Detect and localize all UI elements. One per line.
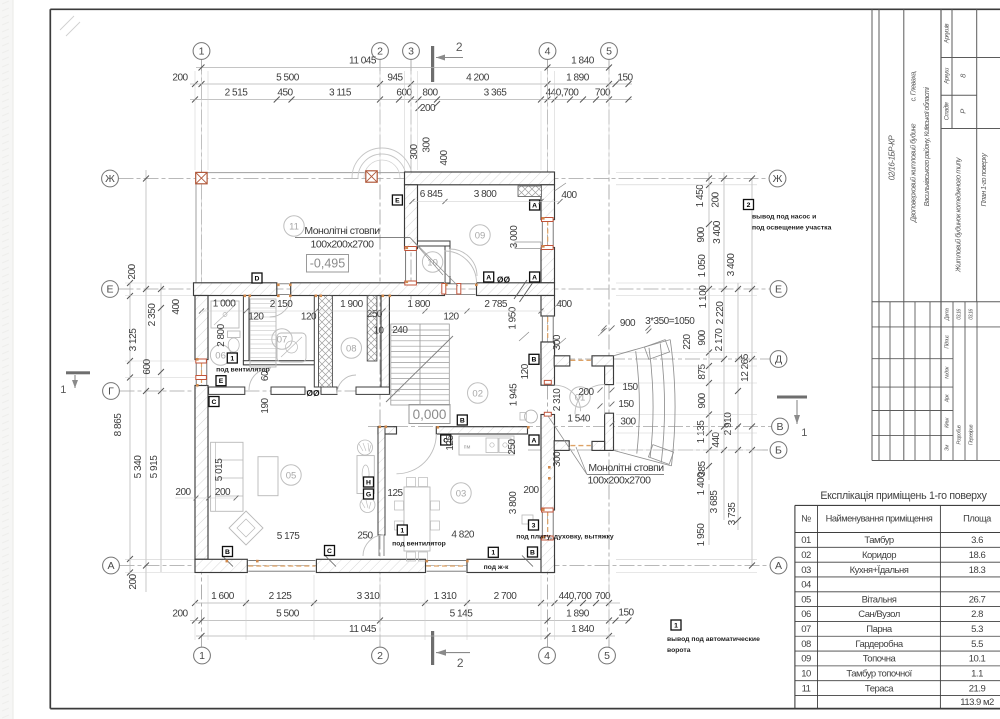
- svg-text:1 310: 1 310: [434, 591, 458, 602]
- svg-text:700: 700: [595, 591, 611, 602]
- svg-text:2: 2: [377, 46, 383, 58]
- svg-text:5 500: 5 500: [276, 609, 300, 620]
- svg-text:с. Глеваха,: с. Глеваха,: [909, 70, 918, 101]
- svg-text:3.6: 3.6: [971, 535, 983, 546]
- svg-text:08: 08: [346, 343, 357, 354]
- svg-text:240: 240: [392, 325, 408, 336]
- svg-text:1 945: 1 945: [509, 383, 520, 406]
- svg-text:-0,495: -0,495: [310, 257, 345, 271]
- svg-text:1 840: 1 840: [571, 56, 595, 67]
- svg-text:10: 10: [373, 325, 384, 336]
- svg-text:300: 300: [620, 417, 636, 428]
- svg-text:E: E: [395, 197, 400, 204]
- svg-text:03: 03: [456, 488, 467, 499]
- svg-text:5: 5: [604, 650, 610, 662]
- svg-text:B: B: [225, 549, 230, 556]
- svg-text:400: 400: [561, 190, 577, 201]
- svg-text:Стадія: Стадія: [945, 101, 951, 120]
- svg-text:09: 09: [801, 654, 811, 665]
- svg-text:1: 1: [491, 550, 495, 557]
- svg-text:3 365: 3 365: [484, 88, 508, 99]
- svg-text:200: 200: [172, 609, 188, 620]
- svg-text:200: 200: [175, 487, 191, 498]
- svg-text:5 500: 5 500: [276, 73, 300, 84]
- svg-text:6 845: 6 845: [420, 189, 443, 200]
- svg-text:Найменування приміщення: Найменування приміщення: [826, 514, 933, 524]
- svg-text:220: 220: [682, 333, 693, 349]
- svg-text:2: 2: [457, 656, 464, 670]
- svg-text:11: 11: [802, 683, 811, 694]
- svg-text:190: 190: [260, 397, 271, 413]
- svg-text:06: 06: [801, 609, 811, 620]
- svg-text:3 800: 3 800: [508, 491, 519, 514]
- svg-text:Б: Б: [775, 445, 782, 457]
- svg-text:3 400: 3 400: [712, 220, 723, 244]
- svg-text:3 685: 3 685: [709, 490, 720, 514]
- svg-text:200: 200: [523, 485, 539, 496]
- svg-text:H: H: [366, 479, 371, 486]
- svg-text:Ж: Ж: [105, 173, 115, 185]
- svg-text:0,000: 0,000: [413, 407, 447, 422]
- svg-text:5: 5: [606, 46, 612, 58]
- svg-text:1 950: 1 950: [508, 306, 519, 329]
- svg-text:Вітальня: Вітальня: [862, 594, 897, 605]
- svg-text:Р: Р: [959, 109, 968, 114]
- svg-text:250: 250: [367, 309, 383, 320]
- svg-text:900: 900: [620, 318, 636, 329]
- svg-text:1: 1: [60, 384, 66, 396]
- svg-text:B: B: [530, 549, 535, 556]
- svg-text:под ж-к: под ж-к: [484, 564, 509, 571]
- svg-text:Підпис: Підпис: [945, 335, 951, 349]
- svg-text:200: 200: [578, 387, 594, 398]
- svg-text:1 100: 1 100: [698, 285, 709, 309]
- svg-text:под освещение участка: под освещение участка: [752, 225, 832, 232]
- svg-text:2 150: 2 150: [270, 299, 293, 310]
- svg-text:2: 2: [456, 40, 463, 54]
- svg-text:4: 4: [544, 650, 550, 662]
- svg-text:Коридор: Коридор: [862, 550, 896, 561]
- svg-text:Топочна: Топочна: [863, 654, 897, 665]
- svg-text:5.5: 5.5: [971, 639, 983, 650]
- svg-text:Е: Е: [106, 284, 113, 296]
- svg-text:400: 400: [439, 149, 450, 165]
- svg-text:2 910: 2 910: [723, 412, 734, 436]
- svg-text:8 865: 8 865: [113, 413, 124, 437]
- svg-text:4 820: 4 820: [451, 529, 474, 540]
- svg-text:5 145: 5 145: [450, 609, 474, 620]
- svg-text:120: 120: [301, 312, 317, 323]
- svg-text:11: 11: [289, 221, 299, 232]
- svg-text:2 785: 2 785: [484, 299, 507, 310]
- svg-text:1 000: 1 000: [213, 298, 236, 309]
- svg-text:Парна: Парна: [866, 624, 893, 635]
- svg-text:Експлікація приміщень 1-го пов: Експлікація приміщень 1-го поверху: [820, 490, 987, 502]
- svg-text:C: C: [327, 548, 332, 555]
- svg-text:120: 120: [248, 312, 264, 323]
- svg-text:200: 200: [172, 73, 188, 84]
- svg-text:200: 200: [711, 191, 722, 207]
- svg-text:1 135: 1 135: [696, 420, 707, 444]
- svg-text:18.3: 18.3: [969, 565, 986, 576]
- svg-text:1: 1: [400, 527, 404, 534]
- svg-text:11 045: 11 045: [349, 624, 377, 635]
- svg-text:700: 700: [595, 88, 611, 99]
- svg-text:07: 07: [277, 334, 288, 345]
- svg-text:1 540: 1 540: [567, 413, 590, 424]
- svg-text:G: G: [366, 491, 371, 498]
- svg-text:1 900: 1 900: [340, 299, 363, 310]
- svg-text:Розробив: Розробив: [957, 425, 963, 445]
- svg-text:150: 150: [618, 399, 634, 410]
- svg-text:ворота: ворота: [667, 647, 691, 654]
- svg-text:3 125: 3 125: [128, 328, 139, 352]
- svg-text:3 800: 3 800: [474, 189, 497, 200]
- svg-text:№док: №док: [945, 366, 951, 379]
- svg-text:1 400: 1 400: [696, 472, 707, 496]
- svg-text:250: 250: [507, 438, 518, 454]
- svg-text:113.9 м2: 113.9 м2: [960, 697, 994, 708]
- svg-text:ØØ: ØØ: [306, 388, 320, 398]
- svg-text:60: 60: [260, 370, 271, 381]
- svg-text:200: 200: [127, 263, 138, 279]
- svg-text:12 265: 12 265: [740, 353, 751, 382]
- svg-text:Аркушів: Аркушів: [945, 24, 951, 44]
- svg-text:250: 250: [357, 531, 373, 542]
- svg-text:2 515: 2 515: [225, 88, 249, 99]
- svg-text:200: 200: [215, 487, 231, 498]
- svg-text:Васильківського району, Київсь: Васильківського району, Київської област…: [923, 87, 931, 207]
- svg-text:100х200х2700: 100х200х2700: [311, 239, 375, 251]
- svg-text:1: 1: [230, 355, 234, 362]
- svg-text:2: 2: [747, 202, 751, 209]
- svg-text:03.16: 03.16: [969, 309, 975, 320]
- svg-text:100х200х2700: 100х200х2700: [588, 475, 652, 487]
- svg-text:Гардеробна: Гардеробна: [855, 639, 904, 650]
- svg-text:Арк: Арк: [945, 394, 951, 403]
- svg-text:2: 2: [377, 650, 383, 662]
- svg-text:Дата: Дата: [945, 308, 951, 321]
- svg-text:1 890: 1 890: [566, 73, 590, 84]
- svg-text:300: 300: [409, 143, 420, 159]
- svg-text:26.7: 26.7: [969, 594, 986, 605]
- svg-text:Монолітні стовпи: Монолітні стовпи: [588, 462, 664, 474]
- svg-text:300: 300: [552, 451, 563, 467]
- svg-text:1 050: 1 050: [697, 254, 708, 278]
- svg-text:02/16-1БР-КР: 02/16-1БР-КР: [888, 135, 897, 181]
- svg-text:01: 01: [801, 535, 811, 546]
- svg-text:Аркуш: Аркуш: [945, 68, 951, 85]
- svg-text:E: E: [219, 378, 224, 385]
- svg-text:120: 120: [520, 363, 531, 379]
- svg-text:3 000: 3 000: [509, 225, 520, 248]
- svg-text:3*350=1050: 3*350=1050: [645, 316, 695, 327]
- svg-text:5 015: 5 015: [214, 458, 225, 481]
- svg-text:900: 900: [696, 226, 707, 242]
- svg-text:вывод под насос и: вывод под насос и: [752, 214, 816, 221]
- svg-text:1 450: 1 450: [695, 184, 706, 208]
- svg-text:3 115: 3 115: [329, 88, 352, 99]
- svg-text:5.3: 5.3: [971, 624, 983, 635]
- svg-text:945: 945: [387, 73, 403, 84]
- svg-text:Кухня+Їдальня: Кухня+Їдальня: [850, 565, 909, 576]
- svg-text:А: А: [775, 560, 782, 572]
- svg-text:1 800: 1 800: [407, 299, 430, 310]
- svg-text:2 700: 2 700: [494, 591, 518, 602]
- svg-text:05: 05: [286, 470, 297, 481]
- svg-text:под вентилятор: под вентилятор: [392, 541, 446, 548]
- svg-text:440,700: 440,700: [559, 591, 593, 602]
- svg-text:2 800: 2 800: [216, 323, 227, 346]
- svg-text:900: 900: [697, 329, 708, 345]
- svg-text:02: 02: [472, 388, 483, 399]
- svg-text:Площа: Площа: [963, 514, 992, 524]
- svg-text:10: 10: [801, 669, 811, 680]
- svg-text:800: 800: [422, 88, 438, 99]
- svg-text:04: 04: [801, 580, 811, 591]
- svg-text:Д: Д: [775, 354, 782, 366]
- svg-text:Тераса: Тераса: [865, 683, 894, 694]
- svg-text:3 400: 3 400: [726, 253, 737, 277]
- svg-text:A: A: [532, 202, 537, 209]
- svg-text:3: 3: [408, 46, 414, 58]
- svg-text:5 915: 5 915: [149, 455, 160, 479]
- svg-text:A: A: [532, 274, 537, 281]
- svg-text:440: 440: [711, 431, 722, 447]
- svg-text:3 310: 3 310: [357, 591, 381, 602]
- svg-text:1: 1: [801, 427, 807, 439]
- svg-text:Двоповерховий житловий будинг: Двоповерховий житловий будинг: [909, 123, 918, 223]
- svg-text:1 600: 1 600: [211, 591, 235, 602]
- svg-text:1 950: 1 950: [696, 523, 707, 547]
- svg-text:ØØ: ØØ: [497, 275, 511, 285]
- svg-text:08: 08: [801, 639, 811, 650]
- svg-text:150: 150: [618, 608, 634, 619]
- svg-text:1 890: 1 890: [566, 609, 590, 620]
- svg-text:03.16: 03.16: [957, 309, 963, 320]
- svg-text:02: 02: [801, 550, 811, 561]
- svg-text:Тамбур топочної: Тамбур топочної: [846, 669, 912, 680]
- svg-text:2.8: 2.8: [971, 609, 983, 620]
- svg-text:21.9: 21.9: [969, 683, 986, 694]
- svg-text:Сан/Вузол: Сан/Вузол: [858, 609, 899, 620]
- svg-text:300: 300: [422, 136, 433, 152]
- svg-text:Е: Е: [775, 284, 782, 296]
- svg-text:06: 06: [215, 350, 226, 361]
- svg-text:№: №: [801, 514, 811, 524]
- svg-text:11 045: 11 045: [349, 56, 377, 67]
- svg-text:18.6: 18.6: [969, 550, 986, 561]
- svg-text:03: 03: [801, 565, 811, 576]
- svg-text:C: C: [212, 399, 217, 406]
- svg-text:2 310: 2 310: [552, 388, 563, 411]
- svg-text:пм: пм: [464, 445, 471, 451]
- svg-text:150: 150: [622, 382, 638, 393]
- svg-text:125: 125: [387, 488, 403, 499]
- svg-text:1: 1: [674, 622, 678, 629]
- svg-text:Перевірив: Перевірив: [969, 424, 975, 445]
- svg-text:2 350: 2 350: [147, 303, 158, 327]
- svg-text:1: 1: [199, 46, 205, 58]
- svg-text:Монолітні стовпи: Монолітні стовпи: [304, 225, 380, 237]
- svg-text:1 840: 1 840: [571, 624, 595, 635]
- svg-text:B: B: [460, 417, 465, 424]
- svg-text:200: 200: [128, 573, 139, 589]
- svg-text:2 220: 2 220: [715, 301, 726, 325]
- svg-text:2 170: 2 170: [714, 328, 725, 352]
- svg-text:вывод под автоматические: вывод под автоматические: [667, 636, 760, 643]
- svg-text:2 125: 2 125: [269, 591, 293, 602]
- svg-text:A: A: [532, 437, 537, 444]
- svg-text:5 340: 5 340: [133, 455, 144, 479]
- svg-text:План 1-го поверху: План 1-го поверху: [979, 153, 988, 207]
- svg-text:200: 200: [420, 103, 436, 114]
- svg-text:5 175: 5 175: [277, 531, 300, 542]
- svg-text:Тамбур: Тамбур: [864, 535, 893, 546]
- svg-text:Зм: Зм: [945, 444, 951, 451]
- svg-text:В: В: [776, 421, 783, 433]
- svg-text:под плиту, духовку, вытяжку: под плиту, духовку, вытяжку: [516, 534, 614, 541]
- svg-text:07: 07: [801, 624, 811, 635]
- svg-text:3: 3: [532, 522, 536, 529]
- svg-text:1: 1: [199, 650, 205, 662]
- svg-text:1.1: 1.1: [971, 669, 983, 680]
- svg-text:B: B: [532, 357, 537, 364]
- svg-text:120: 120: [443, 312, 459, 323]
- svg-text:125: 125: [445, 434, 456, 450]
- svg-text:Кільк: Кільк: [945, 417, 951, 428]
- svg-text:Г: Г: [108, 386, 114, 398]
- svg-text:05: 05: [801, 594, 811, 605]
- svg-text:09: 09: [475, 230, 486, 241]
- svg-text:400: 400: [171, 298, 182, 314]
- svg-text:400: 400: [556, 299, 572, 310]
- svg-text:Житловий будинок котеджного ти: Житловий будинок котеджного типу: [954, 156, 963, 273]
- svg-text:D: D: [255, 275, 260, 282]
- svg-text:10.1: 10.1: [969, 654, 986, 665]
- svg-text:Ж: Ж: [773, 173, 783, 185]
- svg-text:A: A: [486, 274, 491, 281]
- svg-text:4: 4: [545, 46, 551, 58]
- svg-text:А: А: [107, 560, 114, 572]
- svg-text:900: 900: [697, 392, 708, 408]
- svg-text:4 200: 4 200: [466, 73, 490, 84]
